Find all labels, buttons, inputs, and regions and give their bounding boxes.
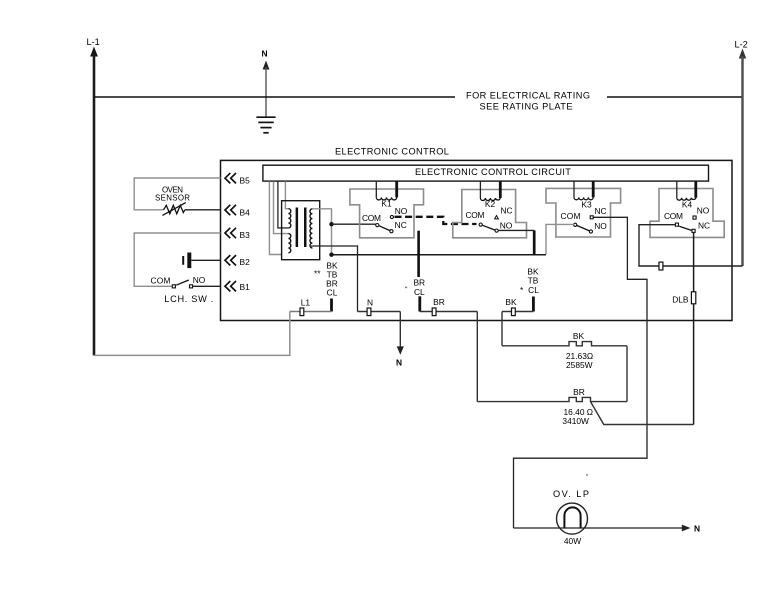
- svg-text:NC: NC: [594, 206, 606, 216]
- resistor BK bake element 21.63ohm: [502, 331, 627, 370]
- svg-text:N: N: [396, 357, 402, 367]
- svg-text:ELECTRONIC CONTROL CIRCUIT: ELECTRONIC CONTROL CIRCUIT: [415, 167, 572, 177]
- fuse BR: [420, 296, 478, 315]
- svg-text:CL: CL: [414, 287, 425, 297]
- svg-text:2585W: 2585W: [566, 360, 593, 370]
- wire K4 NC down to DLB: [693, 232, 695, 291]
- svg-text:B3: B3: [240, 230, 251, 240]
- svg-text:NC: NC: [698, 220, 710, 230]
- fuse L1: [290, 298, 332, 316]
- transformer T1 feed wires from circuit board: [269, 181, 288, 254]
- wire bake element right riser: [626, 346, 628, 402]
- svg-text:B5: B5: [240, 175, 251, 185]
- svg-text:COM: COM: [561, 211, 581, 221]
- stray dot: [586, 474, 588, 476]
- svg-text:NO: NO: [594, 221, 607, 231]
- node L-1 supply rail: [87, 37, 100, 355]
- fuse N: [358, 298, 401, 316]
- relay K3 coil: [574, 181, 593, 209]
- relay K3 body: [546, 188, 621, 237]
- svg-text:COM: COM: [362, 213, 381, 223]
- svg-text:SENSOR: SENSOR: [155, 194, 190, 203]
- node junction dot A: [329, 222, 333, 226]
- transformer T1: [282, 201, 320, 260]
- connector B3 chevron: [225, 228, 250, 240]
- svg-text:K4: K4: [682, 200, 693, 210]
- wire L1 row down-left to L-1 rail: [94, 312, 290, 356]
- wire K3 NC to oven lamp feed: [514, 217, 648, 528]
- wire junction B bus to K2 NO riser: [332, 254, 547, 256]
- relay K2 contacts: [466, 206, 513, 233]
- relay K3 contacts: [561, 206, 608, 233]
- svg-text:L-1: L-1: [87, 37, 100, 47]
- relay K1 coil: [376, 181, 396, 208]
- svg-text:NO: NO: [500, 221, 513, 231]
- svg-text:BR: BR: [573, 387, 585, 397]
- wire thermistor to B4: [185, 209, 221, 211]
- core bars: [296, 208, 299, 248]
- svg-text:SEE RATING PLATE: SEE RATING PLATE: [480, 102, 573, 112]
- svg-text:COM: COM: [466, 210, 485, 220]
- wire BK fuse down to bake element: [501, 312, 503, 346]
- wire thick BR/CL drop below K1: [417, 231, 420, 277]
- wire K2 NO to riser: [498, 229, 534, 231]
- svg-text:N: N: [367, 298, 373, 308]
- svg-text:DLB: DLB: [672, 294, 689, 304]
- svg-text:N: N: [694, 523, 700, 533]
- svg-text:BR: BR: [433, 297, 445, 307]
- svg-text:NO: NO: [395, 206, 408, 216]
- svg-text:40W: 40W: [564, 536, 581, 546]
- resistor oven sensor thermistor: [162, 203, 220, 216]
- wire lamp row to N arrow right: [514, 523, 701, 533]
- svg-text:BK: BK: [573, 331, 585, 341]
- svg-text:CL: CL: [327, 287, 338, 297]
- primary coil lower: [288, 234, 290, 253]
- connector B1 chevron: [225, 281, 250, 292]
- fuse F5 on K4 COM line: [659, 262, 663, 270]
- label BK TB *CL (K2 drop): [520, 266, 539, 295]
- svg-text:**: **: [314, 269, 321, 279]
- fuse DLB: [672, 292, 696, 305]
- fuse BK: [502, 297, 533, 316]
- relay K4 coil: [677, 181, 696, 209]
- svg-text:FOR ELECTRICAL RATING: FOR ELECTRICAL RATING: [466, 91, 590, 101]
- latch switch loop wiring: [134, 233, 220, 286]
- electronic control outer box: [221, 147, 733, 321]
- wire K3 COM to bus riser: [546, 224, 574, 254]
- svg-text:B2: B2: [240, 257, 251, 267]
- relay K4 body: [650, 189, 724, 238]
- label BR CL (K1 drop): [405, 278, 425, 297]
- svg-text:3410W: 3410W: [562, 416, 589, 426]
- svg-text:N: N: [262, 49, 268, 59]
- svg-text:BK: BK: [505, 297, 517, 307]
- connector B4 chevron: [225, 205, 250, 218]
- svg-text:L1: L1: [301, 298, 311, 308]
- wire K4 COM loop to L-2: [639, 225, 743, 266]
- relay K1 body: [350, 189, 424, 238]
- capacitor/antenna symbol at B2: [182, 253, 220, 269]
- wire secondary bottom to N fuse: [311, 246, 358, 312]
- wire thick stub transformer CL to L1 fuse row: [330, 299, 333, 312]
- resistor BR broil element 16.40ohm: [477, 387, 627, 426]
- svg-text:NO: NO: [697, 205, 710, 215]
- svg-text:CL: CL: [528, 285, 539, 295]
- relay K2 coil: [480, 181, 500, 209]
- wire junction A to K1 COM: [332, 223, 376, 225]
- ground: [256, 117, 275, 133]
- node junction dot B: [329, 253, 333, 257]
- svg-text:NC: NC: [395, 220, 407, 230]
- wire N fuse to neutral arrow: [396, 312, 404, 368]
- svg-text:K1: K1: [381, 198, 392, 208]
- wire BR fuse down to broil element: [476, 312, 478, 402]
- wire top bus left segment: [94, 96, 455, 98]
- svg-text:B1: B1: [240, 282, 251, 292]
- node N neutral arrow top: [262, 49, 270, 118]
- wire DLB down to heater node: [693, 304, 695, 425]
- switch LCH. SW.: [151, 275, 221, 304]
- wire B2: [191, 259, 220, 261]
- node L-2 supply rail: [735, 40, 748, 267]
- svg-text:LCH. SW .: LCH. SW .: [164, 294, 213, 304]
- relay K2 body: [453, 190, 527, 238]
- primary coil upper: [288, 209, 290, 228]
- wire dashed K1 NO to K2 COM: [395, 217, 477, 224]
- svg-text:K3: K3: [581, 200, 592, 210]
- label BK TB BR CL (transformer drop): [314, 260, 338, 297]
- relay K1 contacts: [362, 206, 408, 233]
- note: electrical rating text: [466, 91, 590, 112]
- svg-text:L-2: L-2: [735, 40, 748, 50]
- wire top bus right segment: [607, 96, 743, 98]
- svg-text:COM: COM: [664, 211, 683, 221]
- wire secondary top to K1 COM junction: [312, 209, 331, 255]
- electronic control circuit inner box: [263, 165, 709, 181]
- connector B5 chevron: [225, 173, 250, 185]
- svg-text:COM: COM: [151, 275, 171, 285]
- oven sensor loop wiring: [134, 178, 220, 210]
- connector B2 chevron: [225, 255, 250, 267]
- svg-text:K2: K2: [485, 199, 496, 209]
- secondary coil: [310, 209, 312, 248]
- relay K4 contacts: [664, 205, 710, 232]
- svg-text:ELECTRONIC CONTROL: ELECTRONIC CONTROL: [335, 147, 450, 157]
- wire thick K2 riser down to bus: [533, 230, 536, 255]
- svg-text:B4: B4: [240, 208, 251, 218]
- svg-text:NC: NC: [500, 206, 512, 216]
- wire broil element diagonal to DLB node: [591, 402, 694, 425]
- svg-text:NO: NO: [193, 275, 206, 285]
- lamp OV. LP: [553, 489, 589, 546]
